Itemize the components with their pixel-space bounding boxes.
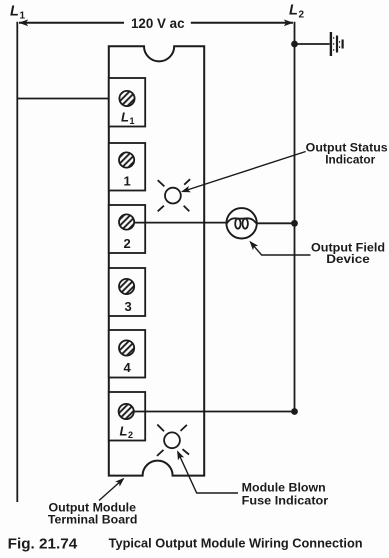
svg-text:3: 3 bbox=[125, 299, 132, 314]
svg-text:Module Blown: Module Blown bbox=[242, 480, 326, 494]
label output field device bbox=[311, 240, 385, 266]
wire terminal L2 to L2 line bbox=[134, 411, 295, 413]
svg-text:L: L bbox=[121, 110, 129, 125]
svg-text:Typical Output Module Wiring C: Typical Output Module Wiring Connection bbox=[109, 536, 363, 551]
wire left vertical L1 line bbox=[16, 22, 18, 502]
svg-text:Fuse Indicator: Fuse Indicator bbox=[242, 493, 329, 507]
junction ground tap bbox=[291, 41, 298, 48]
svg-text:1: 1 bbox=[130, 116, 135, 126]
svg-text:2: 2 bbox=[128, 430, 133, 440]
svg-text:Terminal Board: Terminal Board bbox=[48, 512, 137, 526]
wire terminal 2 to output field device bbox=[134, 222, 227, 224]
label module blown fuse indicator bbox=[242, 480, 329, 507]
terminal 3 bbox=[109, 268, 145, 316]
lamp module blown fuse indicator bbox=[157, 425, 189, 456]
terminal L1 bbox=[109, 78, 145, 127]
leader arrow output module terminal board bbox=[99, 475, 127, 500]
label output status indicator bbox=[306, 141, 388, 167]
svg-text:L: L bbox=[289, 3, 298, 19]
wire top 120V ac left segment with arrow bbox=[19, 19, 124, 26]
svg-text:1: 1 bbox=[124, 174, 131, 189]
svg-text:Device: Device bbox=[326, 252, 370, 266]
wire right vertical L2 line bbox=[294, 22, 296, 413]
svg-text:4: 4 bbox=[124, 360, 132, 375]
svg-text:L: L bbox=[120, 424, 128, 439]
terminal 2 bbox=[109, 205, 145, 253]
wire to ground bbox=[295, 43, 330, 45]
svg-text:L: L bbox=[10, 4, 19, 20]
svg-text:2: 2 bbox=[299, 10, 305, 21]
svg-text:1: 1 bbox=[20, 11, 26, 22]
leader arrow output field device bbox=[247, 239, 311, 255]
wire output field device to L2 line bbox=[257, 222, 295, 224]
svg-text:2: 2 bbox=[124, 236, 131, 251]
svg-text:Indicator: Indicator bbox=[325, 152, 375, 166]
output module terminal board outline bbox=[109, 46, 204, 475]
svg-text:Fig. 21.74: Fig. 21.74 bbox=[8, 535, 78, 552]
leader arrow module blown fuse indicator bbox=[174, 449, 238, 493]
lamp output status indicator bbox=[158, 179, 190, 211]
leader arrow output status indicator bbox=[180, 152, 306, 196]
ground bbox=[331, 32, 343, 56]
terminal 1 bbox=[109, 143, 145, 191]
junction L2 wire bbox=[291, 408, 298, 415]
node L1 label bbox=[10, 4, 26, 22]
terminal 4 bbox=[109, 330, 145, 378]
junction field device L2 bbox=[291, 220, 298, 227]
output field device lamp/coil bbox=[226, 208, 256, 238]
wire from L1 line to terminal L1 bbox=[17, 98, 120, 100]
terminal L2 bbox=[109, 392, 145, 441]
node L2 label bbox=[289, 3, 305, 21]
svg-text:120 V ac: 120 V ac bbox=[131, 16, 185, 31]
label output module terminal board bbox=[48, 501, 137, 527]
wire top 120V ac right segment with arrow bbox=[191, 19, 293, 26]
